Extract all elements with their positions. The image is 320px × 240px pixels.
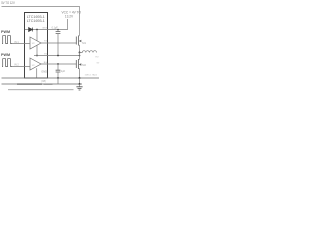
diode D internal bootstrap <box>29 28 33 32</box>
transistor M2 channel <box>77 59 79 69</box>
transistor M2 gate bar <box>75 60 77 68</box>
svg-text:PWM: PWM <box>1 53 10 57</box>
svg-text:M1: M1 <box>82 41 86 45</box>
svg-text:GND: GND <box>41 69 47 73</box>
svg-text:5V: 5V <box>97 62 100 64</box>
wire ground bus2 <box>2 83 83 85</box>
caption title text bar <box>17 83 42 85</box>
wire SW to M2 drain <box>79 53 81 60</box>
node boost junction dot <box>36 29 38 31</box>
caption text bar <box>8 89 74 90</box>
svg-text:LTC1693-1: LTC1693-1 <box>27 19 45 23</box>
inductor L1 <box>80 51 97 53</box>
svg-text:1693-1 TA02: 1693-1 TA02 <box>85 74 98 77</box>
svg-text:IN 2: IN 2 <box>14 64 19 67</box>
node SW junction dot <box>79 52 81 54</box>
wire driver A2 ground lead <box>36 68 38 78</box>
node TS internal dot <box>36 55 38 57</box>
svg-text:V​O: V​O <box>95 57 98 59</box>
transistor M1 channel <box>77 36 79 46</box>
source PWM2 waveform <box>2 59 12 67</box>
svg-text:13.2V: 13.2V <box>65 15 74 19</box>
svg-text:TG: TG <box>44 41 47 43</box>
wire bus tie left <box>57 78 59 84</box>
svg-text:(98): (98) <box>41 79 46 83</box>
node CB bottom dot <box>57 55 59 57</box>
IC U1 box outline <box>25 13 48 79</box>
op-amp driver A1 <box>30 37 41 49</box>
node bus1 cap dot <box>57 77 59 79</box>
wire bus tie right <box>79 78 81 84</box>
wire TS internal vertical <box>36 46 38 56</box>
wire BG output to M2 gate <box>41 63 76 65</box>
capacitor C2 gate <box>57 64 59 70</box>
wire VCC feed <box>48 19 68 30</box>
wire TG output <box>41 42 76 44</box>
svg-text:PWM: PWM <box>1 30 10 34</box>
transistor M1 body arrow <box>79 40 81 42</box>
ground symbol <box>79 84 81 87</box>
source PWM1 waveform <box>2 36 12 44</box>
svg-text:1μF: 1μF <box>61 70 66 73</box>
svg-text:BST: BST <box>43 28 48 30</box>
transistor M1 drain lead <box>78 35 79 37</box>
wire TS switch node <box>34 55 80 57</box>
transistor M2 source lead <box>78 69 79 78</box>
wire ground bus1 <box>2 77 100 79</box>
wire boost/vcc internal <box>25 29 48 31</box>
transistor M2 body arrow <box>79 63 81 65</box>
wire IN1 to driver A1 <box>12 43 30 45</box>
svg-text:1/2: 1/2 <box>32 43 36 45</box>
wire VIN top rail <box>2 7 80 36</box>
node BG cap dot <box>57 63 59 65</box>
transistor M1 source lead <box>78 45 79 52</box>
svg-text:M2: M2 <box>82 63 86 67</box>
op-amp driver A2 <box>30 58 41 70</box>
transistor M1 gate bar <box>75 37 77 45</box>
node CB top dot <box>57 29 59 31</box>
svg-text:IN 1: IN 1 <box>14 41 19 44</box>
wire boost dot to driver1 <box>36 30 38 41</box>
svg-text:1/2: 1/2 <box>32 65 36 67</box>
node TS tee dot <box>79 55 81 57</box>
transistor M2 drain lead <box>78 58 79 60</box>
capacitor CB bootstrap <box>57 30 59 32</box>
node bus1 M2 dot <box>79 77 81 79</box>
svg-text:5V TO 12V: 5V TO 12V <box>1 1 15 5</box>
wire IN2 to driver A2 <box>12 66 30 68</box>
node bus2 dot <box>79 83 81 85</box>
